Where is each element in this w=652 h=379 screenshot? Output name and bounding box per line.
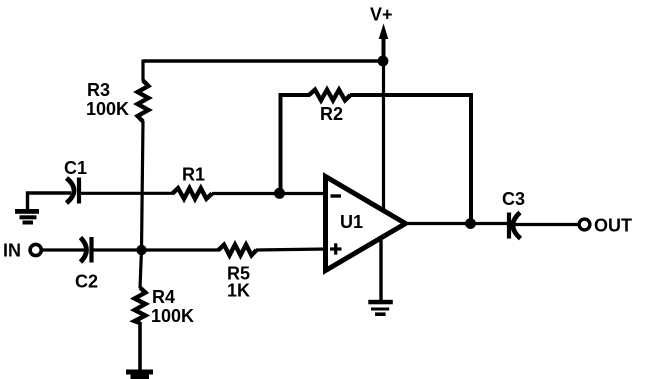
junction dot V+ node <box>378 56 389 67</box>
wire bias bus R3 to R4 <box>140 121 143 288</box>
V+ terminal arrow <box>379 24 389 62</box>
R3 value label <box>86 80 129 119</box>
capacitor C2 <box>81 237 92 263</box>
wire C3 to OUT <box>515 223 579 226</box>
IN terminal <box>30 244 41 255</box>
wire C2 to R5 <box>94 248 221 251</box>
U1 non-inverting pin mark <box>330 243 342 254</box>
wire R1 to inverting input <box>212 192 327 195</box>
svg-text:1K: 1K <box>227 281 250 301</box>
wire V+ supply down to op-amp <box>382 61 385 211</box>
svg-text:C3: C3 <box>502 189 525 209</box>
ground (C1) <box>15 209 39 225</box>
svg-text:R2: R2 <box>320 104 343 124</box>
junction dot bias node <box>136 245 146 255</box>
wire output <box>405 222 507 225</box>
svg-text:R1: R1 <box>182 165 205 185</box>
svg-text:R4: R4 <box>152 287 175 307</box>
R5 value label <box>227 264 250 301</box>
svg-text:U1: U1 <box>340 212 363 232</box>
ground bottom (R4) <box>126 370 153 379</box>
capacitor C1 <box>67 178 80 204</box>
wire feedback left <box>281 95 311 193</box>
svg-text:C2: C2 <box>75 272 98 292</box>
svg-text:OUT: OUT <box>594 216 632 236</box>
wire feedback right <box>350 95 471 222</box>
junction dot output node <box>465 218 476 229</box>
ground (op-amp) <box>368 300 393 316</box>
capacitor C3 <box>509 213 521 239</box>
svg-text:IN: IN <box>3 241 21 261</box>
resistor R1 <box>173 188 213 199</box>
svg-text:R3: R3 <box>87 80 110 100</box>
svg-text:V+: V+ <box>370 5 393 25</box>
svg-text:100K: 100K <box>151 306 194 326</box>
resistor R4 <box>135 288 146 324</box>
wire U1 negative supply to ground <box>379 236 382 301</box>
wire C1 ground stub <box>28 193 72 209</box>
resistor R3 <box>138 81 149 122</box>
resistor R2 <box>309 90 351 101</box>
wire R5 to non-inverting input <box>256 249 327 250</box>
svg-text:C1: C1 <box>64 158 87 178</box>
U1 inverting pin mark <box>331 194 342 197</box>
wire C1 to R1 <box>81 192 174 195</box>
op-amp U1 <box>326 177 406 271</box>
OUT terminal <box>579 219 590 230</box>
wire IN to C2 <box>43 248 85 251</box>
svg-text:100K: 100K <box>86 99 129 119</box>
junction dot inverting node <box>274 188 285 199</box>
resistor R5 <box>219 245 257 256</box>
wire top rail <box>143 59 383 62</box>
R4 value label <box>151 287 194 326</box>
wire R3 top stub <box>141 60 144 82</box>
wire R4 to ground <box>138 322 142 370</box>
